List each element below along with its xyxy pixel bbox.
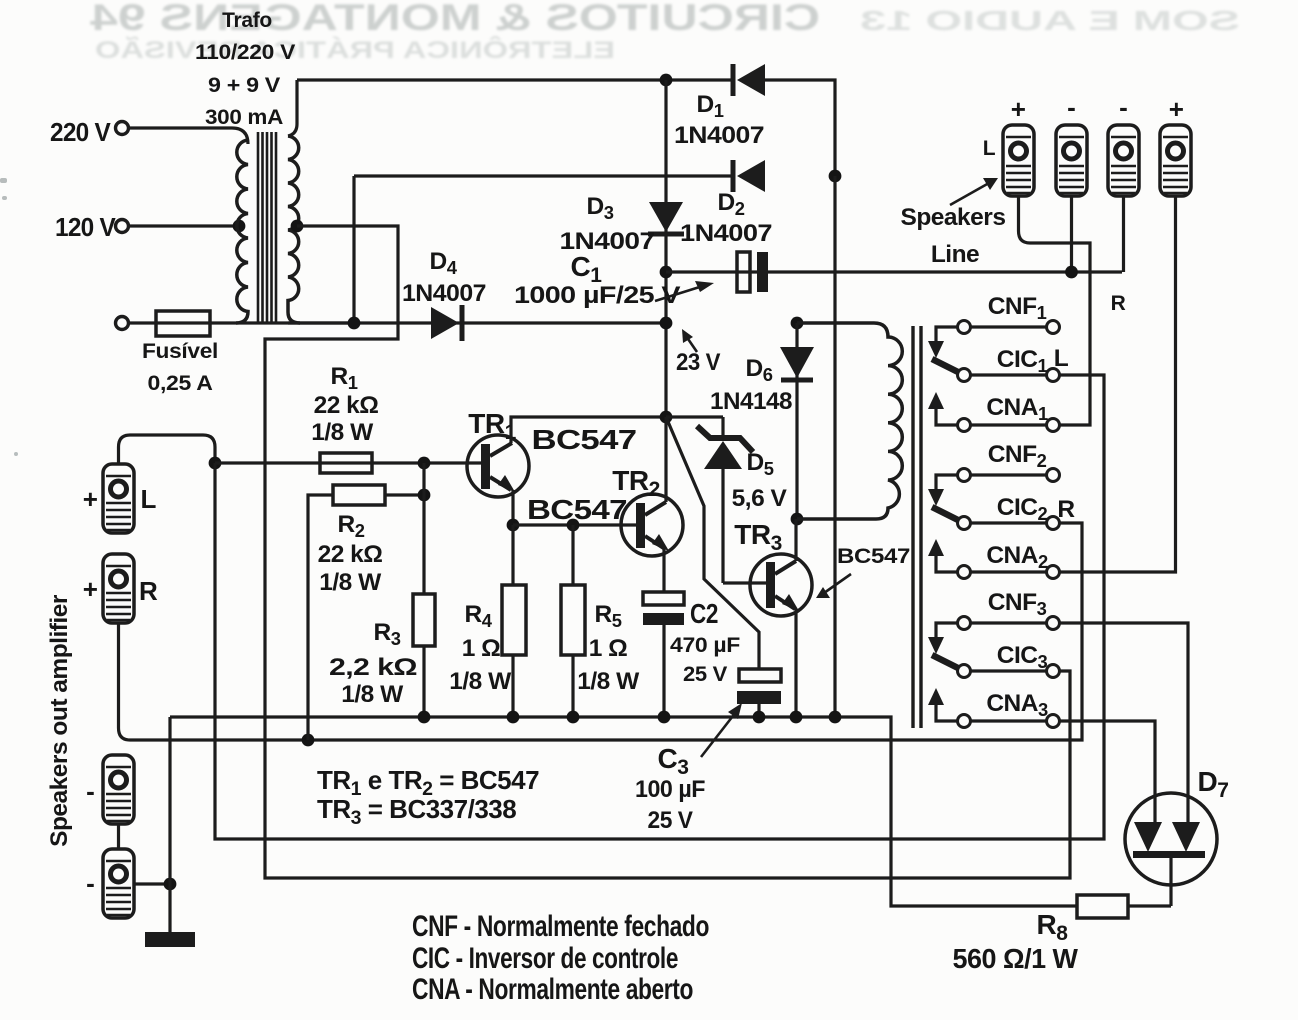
svg-text:-: - bbox=[86, 868, 94, 898]
contact CIC3 bbox=[958, 665, 1060, 678]
wire joining minus terminals bbox=[117, 824, 120, 849]
svg-text:1N4007: 1N4007 bbox=[402, 280, 486, 307]
svg-text:L: L bbox=[140, 484, 156, 514]
terminal amp L bbox=[103, 464, 134, 533]
wire R5 bottom bbox=[571, 655, 574, 717]
wire C2 bottom bbox=[662, 625, 665, 717]
terminal fuse-line circle bbox=[116, 317, 129, 330]
svg-text:22 kΩ: 22 kΩ bbox=[314, 392, 379, 419]
diode D7 bbox=[1125, 793, 1217, 906]
svg-text:1 Ω: 1 Ω bbox=[462, 635, 501, 662]
wire minus2 to ground node bbox=[134, 882, 170, 885]
svg-text:R8: R8 bbox=[1037, 909, 1069, 945]
node R2 drop on row B bbox=[302, 734, 315, 747]
node line2 on C1 row bbox=[1065, 266, 1078, 279]
svg-text:CNA - Normalmente aberto: CNA - Normalmente aberto bbox=[412, 973, 693, 1006]
wire R1/R2 node down to R3 bbox=[422, 463, 425, 594]
zener D5 bbox=[697, 417, 753, 583]
wire center-tap to CIC3 return (row D) bbox=[265, 226, 1070, 878]
svg-text:TR3: TR3 bbox=[734, 519, 782, 555]
terminal 220V circle bbox=[116, 122, 129, 135]
svg-text:9 + 9 V: 9 + 9 V bbox=[208, 74, 280, 97]
diode D1 bbox=[733, 64, 765, 96]
diode D2 bbox=[733, 160, 765, 192]
wire fuse line to primary bottom and D4 bbox=[129, 321, 666, 324]
node secondary tap bbox=[291, 220, 304, 233]
capacitor C1 bbox=[737, 252, 768, 292]
GHOST bbox=[89, 0, 1240, 64]
svg-text:SOM E AUDIO 13: SOM E AUDIO 13 bbox=[860, 5, 1240, 36]
svg-text:CNF - Normalmente fechado: CNF - Normalmente fechado bbox=[412, 910, 709, 943]
svg-text:-: - bbox=[1119, 92, 1127, 122]
node R2 right bbox=[418, 489, 431, 502]
svg-text:25 V: 25 V bbox=[683, 663, 727, 686]
svg-text:1/8 W: 1/8 W bbox=[341, 681, 404, 708]
svg-text:23 V: 23 V bbox=[676, 349, 721, 376]
capacitor C3 bbox=[737, 669, 781, 704]
arrow 23V pointer bbox=[682, 329, 697, 352]
wire C3 bottom bbox=[757, 704, 760, 717]
node TR1 emitter / R4 bbox=[507, 519, 520, 532]
svg-text:R: R bbox=[139, 576, 158, 606]
svg-text:5,6 V: 5,6 V bbox=[732, 485, 788, 512]
wire R5 top bbox=[571, 525, 574, 585]
transistor TR2 bbox=[621, 494, 683, 556]
wire R4 top bbox=[511, 525, 514, 585]
svg-text:1 Ω: 1 Ω bbox=[589, 635, 628, 662]
svg-text:BC547: BC547 bbox=[837, 545, 910, 568]
svg-text:D4: D4 bbox=[430, 248, 458, 278]
wire TR3 emitter down bbox=[794, 609, 797, 717]
svg-text:D7: D7 bbox=[1198, 766, 1229, 802]
svg-text:1N4007: 1N4007 bbox=[674, 122, 764, 149]
terminal line1 (+L) bbox=[1003, 125, 1034, 196]
transformer secondary winding bbox=[288, 136, 300, 323]
node C1 row left bbox=[660, 266, 673, 279]
node rail R5 bbox=[567, 711, 580, 724]
resistor R8 bbox=[1077, 895, 1128, 918]
node 23V rail at D6 bbox=[791, 317, 804, 330]
svg-text:D1: D1 bbox=[697, 91, 724, 121]
contact CNF1 bbox=[958, 321, 1060, 334]
diode D4 bbox=[431, 305, 462, 341]
svg-text:300 mA: 300 mA bbox=[205, 106, 283, 129]
svg-text:R: R bbox=[1057, 496, 1075, 523]
wire C3 diagonal feed bbox=[666, 417, 759, 669]
fuse F1 bbox=[156, 311, 210, 336]
node rail C2 bbox=[658, 711, 671, 724]
wire rail left drop to ground bbox=[168, 717, 171, 884]
armature bracket 2 bbox=[928, 475, 960, 572]
resistor R4 bbox=[502, 585, 526, 655]
paper specks bbox=[0, 178, 18, 456]
wire TR3 base bbox=[723, 581, 766, 584]
wire TR1 collector row to D5 bbox=[666, 415, 723, 418]
svg-text:1/8 W: 1/8 W bbox=[449, 668, 512, 695]
wire R4 bottom bbox=[511, 655, 514, 717]
wire ground drop bbox=[168, 884, 171, 933]
svg-text:0,25 A: 0,25 A bbox=[148, 372, 213, 395]
svg-text:22 kΩ: 22 kΩ bbox=[318, 541, 383, 568]
svg-text:D2: D2 bbox=[718, 189, 745, 219]
svg-text:CIC - Inversor de controle: CIC - Inversor de controle bbox=[412, 942, 678, 975]
resistor R3 bbox=[413, 594, 435, 646]
svg-text:R4: R4 bbox=[465, 601, 493, 631]
wire TR3 collector up bbox=[794, 519, 797, 561]
terminal amp minus1 bbox=[103, 755, 134, 824]
svg-text:CNF1: CNF1 bbox=[988, 293, 1047, 323]
svg-text:R1: R1 bbox=[331, 363, 358, 393]
svg-text:1000 µF/25 V: 1000 µF/25 V bbox=[514, 282, 681, 309]
terminal 120V circle bbox=[116, 220, 129, 233]
arrow C3 pointer bbox=[701, 703, 742, 757]
wire D3 branch vertical bbox=[664, 80, 667, 417]
svg-text:CIRCUITOS & MONTAGENS 94: CIRCUITOS & MONTAGENS 94 bbox=[89, 0, 820, 38]
terminal line2 (-) bbox=[1056, 125, 1087, 196]
wire line3 to C1 row end bbox=[1122, 196, 1125, 272]
wire TR2 emitter down to C2 bbox=[662, 549, 665, 592]
wire right vertical D1/D2 to ground rail bbox=[833, 176, 836, 717]
svg-text:+: + bbox=[1169, 94, 1184, 124]
svg-text:1/8 W: 1/8 W bbox=[319, 569, 382, 596]
svg-text:Speakers: Speakers bbox=[901, 204, 1006, 231]
contact CNA2 bbox=[958, 566, 1060, 579]
wire amp L to R1 node bbox=[119, 435, 216, 464]
svg-text:+: + bbox=[83, 484, 98, 514]
svg-text:100 µF: 100 µF bbox=[635, 776, 705, 803]
contact CIC2 bbox=[958, 517, 1060, 530]
node top line / D3 branch bbox=[660, 74, 673, 87]
svg-text:D6: D6 bbox=[746, 355, 773, 385]
svg-text:CNF3: CNF3 bbox=[988, 589, 1047, 619]
wire TR1 emitter down bbox=[511, 490, 514, 525]
terminal line3 (-) bbox=[1108, 125, 1139, 196]
wire CNA3 to D7 left bbox=[1060, 721, 1155, 822]
terminal line4 (+) bbox=[1160, 125, 1191, 196]
svg-text:220 V: 220 V bbox=[50, 117, 111, 147]
relay core bbox=[913, 326, 921, 728]
node primary tap bbox=[233, 220, 246, 233]
armature bracket 1 bbox=[928, 327, 960, 425]
svg-text:BC547: BC547 bbox=[527, 494, 627, 525]
wire amp R down to CIC2 return (row B) bbox=[119, 523, 1083, 740]
svg-text:+: + bbox=[83, 574, 98, 604]
transistor TR3 bbox=[750, 554, 812, 616]
wire R1 row bbox=[215, 461, 484, 464]
wire D2 riser from fuse line bbox=[352, 176, 355, 323]
svg-text:D5: D5 bbox=[747, 449, 774, 479]
svg-text:470 µF: 470 µF bbox=[670, 634, 741, 657]
node ground junction bbox=[164, 878, 177, 891]
svg-text:Line: Line bbox=[931, 241, 979, 268]
relay coil bbox=[797, 323, 902, 519]
resistor R1 bbox=[320, 453, 372, 473]
svg-text:CIC3: CIC3 bbox=[997, 642, 1048, 672]
node L / R1 left bbox=[209, 457, 222, 470]
node rail R3 bbox=[418, 711, 431, 724]
node rail TR3 emitter bbox=[790, 711, 803, 724]
svg-text:CIC1: CIC1 bbox=[997, 346, 1048, 376]
svg-text:CNA2: CNA2 bbox=[986, 542, 1048, 572]
capacitor C2 bbox=[643, 592, 684, 625]
wire TR1 collector up and right bbox=[511, 417, 666, 443]
wire R2 right to vertical bbox=[385, 493, 424, 496]
svg-text:R5: R5 bbox=[595, 601, 622, 631]
transformer primary winding bbox=[236, 140, 248, 323]
node R5 top bbox=[567, 519, 580, 532]
node 23V rail at D3 bbox=[660, 317, 673, 330]
node D2 riser on fuse line bbox=[348, 317, 361, 330]
resistor R2 bbox=[333, 485, 385, 505]
node rail R4 bbox=[507, 711, 520, 724]
contact CNA1 bbox=[958, 419, 1060, 432]
svg-text:R: R bbox=[1111, 292, 1126, 315]
svg-text:1/8 W: 1/8 W bbox=[311, 419, 374, 446]
svg-text:Fusível: Fusível bbox=[142, 340, 218, 363]
wire CNF3 to D7 right bbox=[1060, 623, 1188, 822]
wire line2 to C1 row bbox=[1070, 196, 1073, 272]
diode D3 bbox=[648, 202, 684, 234]
arrow C1 pointer bbox=[655, 281, 714, 301]
svg-text:R3: R3 bbox=[374, 619, 401, 649]
svg-text:R2: R2 bbox=[338, 511, 365, 541]
svg-text:Trafo: Trafo bbox=[222, 9, 272, 32]
wire D1 to right corner bbox=[765, 80, 835, 176]
svg-text:560 Ω/1 W: 560 Ω/1 W bbox=[953, 943, 1079, 974]
wire ground rail to R8 bbox=[170, 717, 1077, 906]
transistor TR1 bbox=[467, 435, 529, 497]
svg-text:25 V: 25 V bbox=[648, 807, 694, 834]
wire R2 left drop bbox=[308, 495, 333, 740]
wire TR1 emitter to TR2 base bbox=[513, 523, 637, 526]
contact CNF2 bbox=[958, 469, 1060, 482]
svg-text:L: L bbox=[983, 137, 996, 160]
arrow BC547 pointer bbox=[816, 574, 851, 598]
wire 220V to primary top bbox=[129, 128, 248, 144]
wire secondary top riser bbox=[288, 80, 297, 136]
svg-text:110/220 V: 110/220 V bbox=[195, 41, 295, 64]
wire C1 row bbox=[666, 270, 1122, 273]
svg-text:1N4148: 1N4148 bbox=[710, 388, 792, 415]
svg-text:Speakers out amplifier: Speakers out amplifier bbox=[46, 594, 73, 847]
node D2 right bbox=[829, 170, 842, 183]
wire line1 to CNA1 bbox=[1019, 196, 1091, 425]
svg-text:C2: C2 bbox=[690, 598, 718, 629]
svg-text:TR3 = BC337/338: TR3 = BC337/338 bbox=[317, 794, 516, 829]
svg-text:1N4007: 1N4007 bbox=[680, 220, 772, 247]
wire D2 row from riser to D2 bbox=[354, 174, 733, 177]
svg-text:L: L bbox=[1054, 345, 1069, 372]
wire 120V to primary tap bbox=[129, 224, 239, 227]
svg-text:-: - bbox=[86, 776, 94, 806]
wire TR2 collector up bbox=[664, 417, 667, 502]
svg-text:CNA3: CNA3 bbox=[986, 690, 1048, 720]
contact CNF3 bbox=[958, 617, 1060, 630]
svg-text:ELETRÔNICA PRÁTICA REVISÃO: ELETRÔNICA PRÁTICA REVISÃO bbox=[95, 36, 615, 64]
wire line4 to CNA2 bbox=[1060, 196, 1176, 572]
svg-text:+: + bbox=[1011, 94, 1026, 124]
transformer core bbox=[258, 132, 276, 322]
terminal amp minus2 bbox=[103, 849, 134, 918]
svg-text:D3: D3 bbox=[587, 193, 614, 223]
svg-text:1/8 W: 1/8 W bbox=[577, 668, 640, 695]
node TR1 collector row / D3 bbox=[660, 411, 673, 424]
armature bracket 3 bbox=[928, 623, 960, 721]
svg-text:CNF2: CNF2 bbox=[988, 441, 1047, 471]
wire top line secondary to D1 bbox=[297, 78, 733, 81]
svg-text:2,2 kΩ: 2,2 kΩ bbox=[329, 654, 417, 681]
svg-text:120 V: 120 V bbox=[55, 212, 116, 242]
svg-text:TR1: TR1 bbox=[468, 408, 516, 444]
node D6 bottom / TR3 collector bbox=[791, 513, 804, 526]
contact CNA3 bbox=[958, 715, 1060, 728]
svg-text:CNA1: CNA1 bbox=[986, 394, 1048, 424]
ground bbox=[145, 932, 195, 947]
arrow Speakers pointer bbox=[950, 178, 998, 205]
terminal amp R bbox=[103, 554, 134, 623]
diode D6 bbox=[780, 323, 814, 519]
svg-text:-: - bbox=[1067, 92, 1075, 122]
node rail C3 bbox=[753, 711, 766, 724]
svg-text:CIC2: CIC2 bbox=[997, 494, 1048, 524]
wire R3 bottom bbox=[422, 646, 425, 717]
wire L node down to CIC1 return (row C) bbox=[215, 375, 1104, 839]
svg-text:C3: C3 bbox=[658, 743, 689, 779]
contact CIC1 bbox=[958, 369, 1060, 382]
resistor R5 bbox=[561, 585, 585, 655]
wire secondary bottom continues on fuse line bbox=[288, 321, 360, 324]
node R1 right / R2 junction bbox=[418, 457, 431, 470]
svg-text:BC547: BC547 bbox=[532, 424, 637, 455]
node rail D1/D2 return bbox=[829, 711, 842, 724]
